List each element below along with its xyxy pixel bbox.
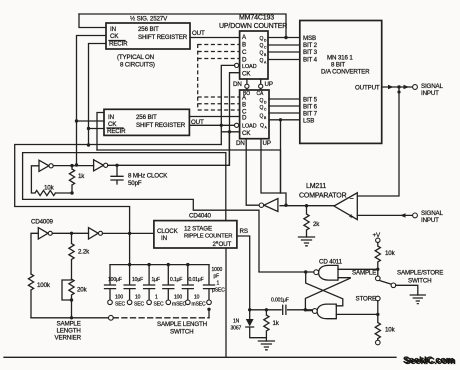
- wire common to ground: [396, 285, 418, 295]
- inverter U5b: [94, 160, 104, 171]
- svg-text:CK: CK: [110, 33, 119, 40]
- svg-text:OUT: OUT: [219, 241, 232, 248]
- shift register SR1 box: [106, 23, 190, 49]
- svg-text:10μF: 10μF: [132, 277, 143, 283]
- svg-text:IN: IN: [110, 26, 116, 33]
- svg-text:50pF: 50pF: [128, 180, 142, 187]
- wire cap bank top rail: [110, 264, 209, 266]
- svg-text:SAMPLE: SAMPLE: [352, 270, 376, 277]
- node 1k bottom: [70, 191, 73, 194]
- wire IN riser to SR1: [79, 14, 106, 28]
- wire U6a out to U6b in: [52, 232, 88, 234]
- svg-text:B: B: [242, 42, 246, 49]
- wire RECIR riser: [89, 44, 107, 146]
- svg-text:Q: Q: [260, 58, 264, 64]
- svg-text:Q: Q: [260, 105, 264, 111]
- node MSB junction: [284, 36, 287, 39]
- pin LOAD1 bubble: [235, 63, 239, 67]
- svg-text:(TYPICAL ON: (TYPICAL ON: [117, 54, 154, 61]
- svg-text:B: B: [264, 53, 267, 57]
- pin LOAD2 bubble: [235, 123, 239, 127]
- dashed bus for other 7 circuits: [197, 44, 199, 110]
- node L1 / clock-in riser: [128, 232, 131, 235]
- diode D1 1N3067: [249, 310, 251, 319]
- arrow on output wire: [388, 85, 394, 89]
- svg-text:MN 316 1: MN 316 1: [327, 55, 353, 62]
- svg-text:OUTPUT: OUTPUT: [355, 85, 380, 92]
- node 2^8out / RS junction: [248, 308, 251, 311]
- svg-text:SWITCH: SWITCH: [170, 329, 194, 336]
- svg-text:IN: IN: [108, 114, 114, 121]
- capacitor C5 0.1uF: [163, 265, 174, 300]
- svg-text:SIGNAL: SIGNAL: [421, 210, 444, 217]
- wire SR2 IN riser from L2: [97, 113, 104, 151]
- svg-text:LOAD: LOAD: [242, 64, 257, 70]
- svg-text:8 BIT: 8 BIT: [331, 62, 345, 69]
- svg-text:SIGNAL: SIGNAL: [421, 83, 444, 90]
- svg-text:C: C: [242, 49, 247, 56]
- svg-text:DN: DN: [236, 140, 245, 147]
- wire U6b out to CD4040 clock in: [103, 232, 154, 234]
- svg-text:pF: pF: [214, 274, 220, 280]
- svg-text:20k: 20k: [77, 287, 88, 294]
- svg-text:C: C: [264, 46, 267, 50]
- node store / 10k: [376, 313, 379, 316]
- svg-text:2.2k: 2.2k: [78, 249, 90, 256]
- node 50pF tap: [115, 164, 118, 167]
- svg-text:SHIFT REGISTER: SHIFT REGISTER: [138, 34, 188, 41]
- inverter U6b: [89, 228, 99, 239]
- wire CK riser (8 MHz clock to SR clocks): [77, 36, 107, 166]
- wire osc output clock line: [108, 132, 230, 166]
- svg-text:IN: IN: [161, 235, 167, 242]
- svg-text:−: −: [350, 194, 355, 203]
- svg-text:RIPPLE COUNTER: RIPPLE COUNTER: [184, 234, 232, 240]
- wire U8a input from sample node: [338, 268, 378, 270]
- switch blade: [380, 281, 392, 285]
- svg-text:100k: 100k: [37, 282, 51, 289]
- svg-text:256 BIT: 256 BIT: [136, 114, 157, 121]
- capacitor C2 100uF: [105, 265, 116, 300]
- svg-text:D: D: [264, 101, 267, 105]
- wire L2 sample line: [97, 150, 281, 193]
- wire U8b input to store node: [336, 313, 378, 315]
- svg-text:CA: CA: [257, 91, 265, 97]
- svg-text:DN: DN: [233, 81, 242, 88]
- svg-text:SEC: SEC: [154, 302, 164, 308]
- svg-text:1: 1: [217, 281, 220, 287]
- wire counter2 outputs to D/A: [269, 98, 300, 100]
- node sample: [376, 268, 379, 271]
- terminal signal input 1: [413, 85, 418, 90]
- shift register SR2 box: [104, 109, 189, 135]
- svg-text:CD4009: CD4009: [31, 219, 54, 226]
- ground below 2k: [299, 237, 315, 246]
- wire bottom frame: [4, 356, 396, 358]
- wire vernier bottom rail: [31, 317, 109, 319]
- svg-text:B: B: [242, 102, 246, 109]
- wire SR2 CK stub: [77, 120, 105, 122]
- wire osc feedback + resistor R4 10k: [31, 166, 72, 196]
- svg-text:SeekIC.com: SeekIC.com: [405, 356, 456, 367]
- svg-text:100μF: 100μF: [108, 277, 122, 283]
- svg-text:A: A: [265, 126, 268, 130]
- D/A U2 box: [300, 21, 382, 144]
- svg-text:LM211: LM211: [306, 183, 326, 190]
- capacitor C3 10uF: [124, 265, 135, 300]
- svg-text:A: A: [264, 61, 267, 65]
- node 2.2k tap: [70, 232, 73, 235]
- terminal vernier wiper: [109, 315, 114, 320]
- svg-text:8 CIRCUITS): 8 CIRCUITS): [120, 62, 155, 69]
- svg-text:CK: CK: [242, 130, 251, 137]
- node CK2 junction: [228, 130, 231, 133]
- svg-text:BIT 7: BIT 7: [303, 111, 318, 118]
- inverter U5a: [39, 160, 49, 171]
- potentiometer R7 20k: [69, 279, 74, 318]
- svg-text:CK: CK: [242, 71, 251, 78]
- node 2k tap: [305, 204, 308, 207]
- svg-text:B: B: [264, 116, 267, 120]
- svg-text:10k: 10k: [44, 185, 55, 192]
- svg-text:CD 4011: CD 4011: [319, 259, 343, 266]
- svg-text:0.1μF: 0.1μF: [170, 277, 182, 283]
- svg-text:BIT 2: BIT 2: [303, 42, 318, 49]
- wire top bus from IN riser to MSB node: [79, 14, 286, 38]
- svg-text:Q: Q: [260, 114, 264, 120]
- wire wiper dashed: [113, 317, 209, 319]
- svg-text:C: C: [264, 108, 267, 112]
- node RECIR riser joins L1: [87, 143, 90, 146]
- wire comparator plus input to signal input 2: [357, 214, 412, 216]
- svg-text:12 STAGE: 12 STAGE: [184, 226, 212, 233]
- wire comparator output line: [280, 205, 334, 207]
- node RECIR riser / SR2 RECIR: [87, 127, 90, 130]
- node switch wiper contact: [207, 308, 210, 311]
- inverter U3 (up/down steering): [264, 199, 278, 212]
- node output/comparator tap: [397, 85, 400, 88]
- svg-text:LSB: LSB: [303, 118, 314, 125]
- svg-text:SEC: SEC: [115, 302, 125, 308]
- svg-text:μSEC: μSEC: [212, 288, 225, 294]
- pin UP1 bubble cascade: [260, 79, 262, 84]
- svg-text:SWITCH: SWITCH: [408, 278, 432, 285]
- svg-text:D: D: [242, 115, 247, 122]
- wire Q line into CD4040 top: [225, 153, 227, 221]
- wire CK2 left jog down to M1': [222, 131, 240, 133]
- wire SR1 OUT to counter A: [190, 37, 240, 39]
- svg-text:1k: 1k: [78, 173, 85, 180]
- svg-text:SHIFT REGISTER: SHIFT REGISTER: [136, 122, 186, 129]
- svg-text:VERNIER: VERNIER: [55, 335, 82, 342]
- svg-text:Q: Q: [260, 98, 264, 104]
- svg-text:UP: UP: [265, 81, 273, 88]
- capacitor C8 0.001uF: [250, 305, 304, 314]
- svg-text:1μF: 1μF: [152, 277, 160, 283]
- resistor R9 10k: [375, 243, 380, 277]
- cross-coupling wires: [306, 272, 343, 306]
- svg-text:D: D: [242, 57, 247, 64]
- svg-text:1N: 1N: [233, 319, 240, 325]
- wire counter1 outputs to D/A: [268, 37, 300, 39]
- svg-text:RS: RS: [240, 228, 248, 235]
- svg-text:256 BIT: 256 BIT: [138, 26, 159, 33]
- svg-text:BIT 6: BIT 6: [303, 104, 318, 111]
- node CK riser joins clock line: [75, 163, 78, 166]
- svg-text:Q: Q: [260, 43, 264, 49]
- svg-text:RECIR: RECIR: [107, 128, 126, 135]
- wire store drop: [377, 301, 379, 315]
- svg-text:Q: Q: [260, 51, 264, 57]
- svg-text:1: 1: [155, 295, 158, 301]
- node CK riser / SR2 CK: [75, 119, 78, 122]
- op-amp U4 LM211 triangle: [334, 193, 357, 220]
- svg-text:0.001μF: 0.001μF: [271, 298, 289, 304]
- node 1k tap: [70, 164, 73, 167]
- wire SR2 RECIR stub: [89, 128, 105, 130]
- capacitor C1 50pF: [111, 165, 123, 184]
- wire osc inv1 out to inv2 in: [53, 165, 93, 167]
- svg-text:3067: 3067: [231, 326, 242, 332]
- resistor R5 2.2k: [69, 233, 74, 279]
- svg-text:MM74C193: MM74C193: [239, 15, 274, 22]
- svg-text:CD4040: CD4040: [189, 213, 212, 220]
- svg-text:A: A: [242, 34, 247, 41]
- resistor R10 10k: [375, 314, 380, 340]
- svg-text:mSEC: mSEC: [172, 302, 187, 308]
- svg-text:SAMPLE LENGTH: SAMPLE LENGTH: [157, 321, 207, 328]
- svg-text:½ SIG. 2527V: ½ SIG. 2527V: [130, 16, 168, 23]
- wire 2^8 out down to bottom rail: [225, 248, 227, 357]
- svg-text:mSEC: mSEC: [192, 302, 207, 308]
- gate U8b (mirrored nand): [317, 304, 336, 319]
- terminal -V: [376, 340, 381, 345]
- resistor R6 100k: [28, 274, 33, 318]
- wire SR2 OUT upper to counter D: [189, 116, 239, 118]
- svg-text:2k: 2k: [313, 221, 320, 228]
- svg-text:D: D: [264, 39, 267, 43]
- svg-text:D/A CONVERTER: D/A CONVERTER: [321, 69, 370, 76]
- svg-text:Q: Q: [260, 36, 264, 42]
- wire DN2 riser to gate U3: [246, 139, 259, 206]
- terminal switch common: [391, 283, 396, 288]
- pin DN1 bubble cascade: [246, 79, 248, 84]
- svg-text:CLOCK: CLOCK: [157, 228, 179, 235]
- wire comparator minus input riser: [357, 87, 399, 196]
- wire RS to one-shot: [237, 236, 250, 310]
- svg-text:+: +: [349, 212, 354, 221]
- svg-text:BIT 4: BIT 4: [303, 57, 318, 64]
- svg-text:BIT 3: BIT 3: [303, 49, 318, 56]
- svg-text:100: 100: [174, 295, 182, 301]
- svg-text:STORE: STORE: [356, 296, 376, 303]
- resistor R8 1k: [264, 310, 269, 341]
- svg-text:INPUT: INPUT: [421, 217, 439, 224]
- svg-text:MSB: MSB: [303, 35, 316, 42]
- svg-text:COMPARATOR: COMPARATOR: [299, 192, 347, 199]
- ground below 1k: [258, 341, 274, 350]
- svg-text:0.01μF: 0.01μF: [189, 277, 204, 283]
- svg-text:Q: Q: [260, 123, 264, 129]
- svg-text:RECIR: RECIR: [109, 41, 128, 48]
- wire SR2 lower pin to counter LOAD with node: [189, 124, 236, 126]
- wire UP2 riser: [261, 139, 286, 206]
- svg-text:100: 100: [115, 295, 123, 301]
- inverter U6a: [38, 228, 48, 239]
- node comparator output / UP riser: [284, 204, 287, 207]
- terminal signal input 2: [413, 213, 418, 218]
- gate U8a (mirrored nand): [319, 265, 338, 280]
- resistor R2 2k: [304, 206, 309, 237]
- wire LOAD1 to riser: [221, 65, 234, 144]
- capacitor C4 1uF: [144, 265, 155, 300]
- counter U7 CD4040 box: [154, 221, 237, 248]
- node latch output: [304, 308, 307, 311]
- resistor R3 1k: [69, 166, 74, 193]
- wire latch Q output to left: [259, 271, 314, 273]
- svg-text:SAMPLE: SAMPLE: [57, 321, 81, 328]
- svg-text:10k: 10k: [385, 327, 396, 334]
- svg-text:CK: CK: [108, 121, 117, 128]
- svg-text:INPUT: INPUT: [421, 90, 439, 97]
- arrow on plus input wire: [400, 213, 406, 217]
- svg-text:LENGTH: LENGTH: [57, 328, 81, 335]
- svg-text:UP: UP: [263, 140, 271, 147]
- wire LSB node riser: [280, 120, 282, 193]
- counter U1a box: [240, 31, 268, 79]
- wire CK1 to riser: [230, 73, 240, 166]
- svg-text:LOAD: LOAD: [242, 124, 257, 130]
- svg-text:SEC: SEC: [134, 302, 144, 308]
- svg-text:UP/DOWN COUNTER: UP/DOWN COUNTER: [219, 23, 287, 30]
- wire D/A output to signal input terminal: [382, 86, 413, 88]
- capacitor C6 0.01uF: [182, 265, 193, 300]
- capacitor C7 1000pF: [204, 265, 215, 300]
- wire L1 recirculate line: [15, 145, 222, 265]
- svg-text:8 MHz CLOCK: 8 MHz CLOCK: [128, 173, 168, 180]
- svg-text:SAMPLE/STORE: SAMPLE/STORE: [397, 270, 443, 277]
- svg-text:10k: 10k: [385, 250, 396, 257]
- svg-text:1000: 1000: [212, 267, 223, 273]
- counter U1b box: [240, 90, 269, 139]
- svg-text:1k: 1k: [273, 320, 280, 327]
- node 1k top: [265, 308, 268, 311]
- wire U6a input from 100k: [31, 233, 38, 274]
- svg-text:BIT 5: BIT 5: [303, 97, 318, 104]
- svg-text:OUT: OUT: [192, 30, 205, 37]
- wire L2 sample-store line left part: [23, 153, 259, 272]
- svg-text:10: 10: [135, 295, 141, 301]
- svg-text:10: 10: [194, 295, 200, 301]
